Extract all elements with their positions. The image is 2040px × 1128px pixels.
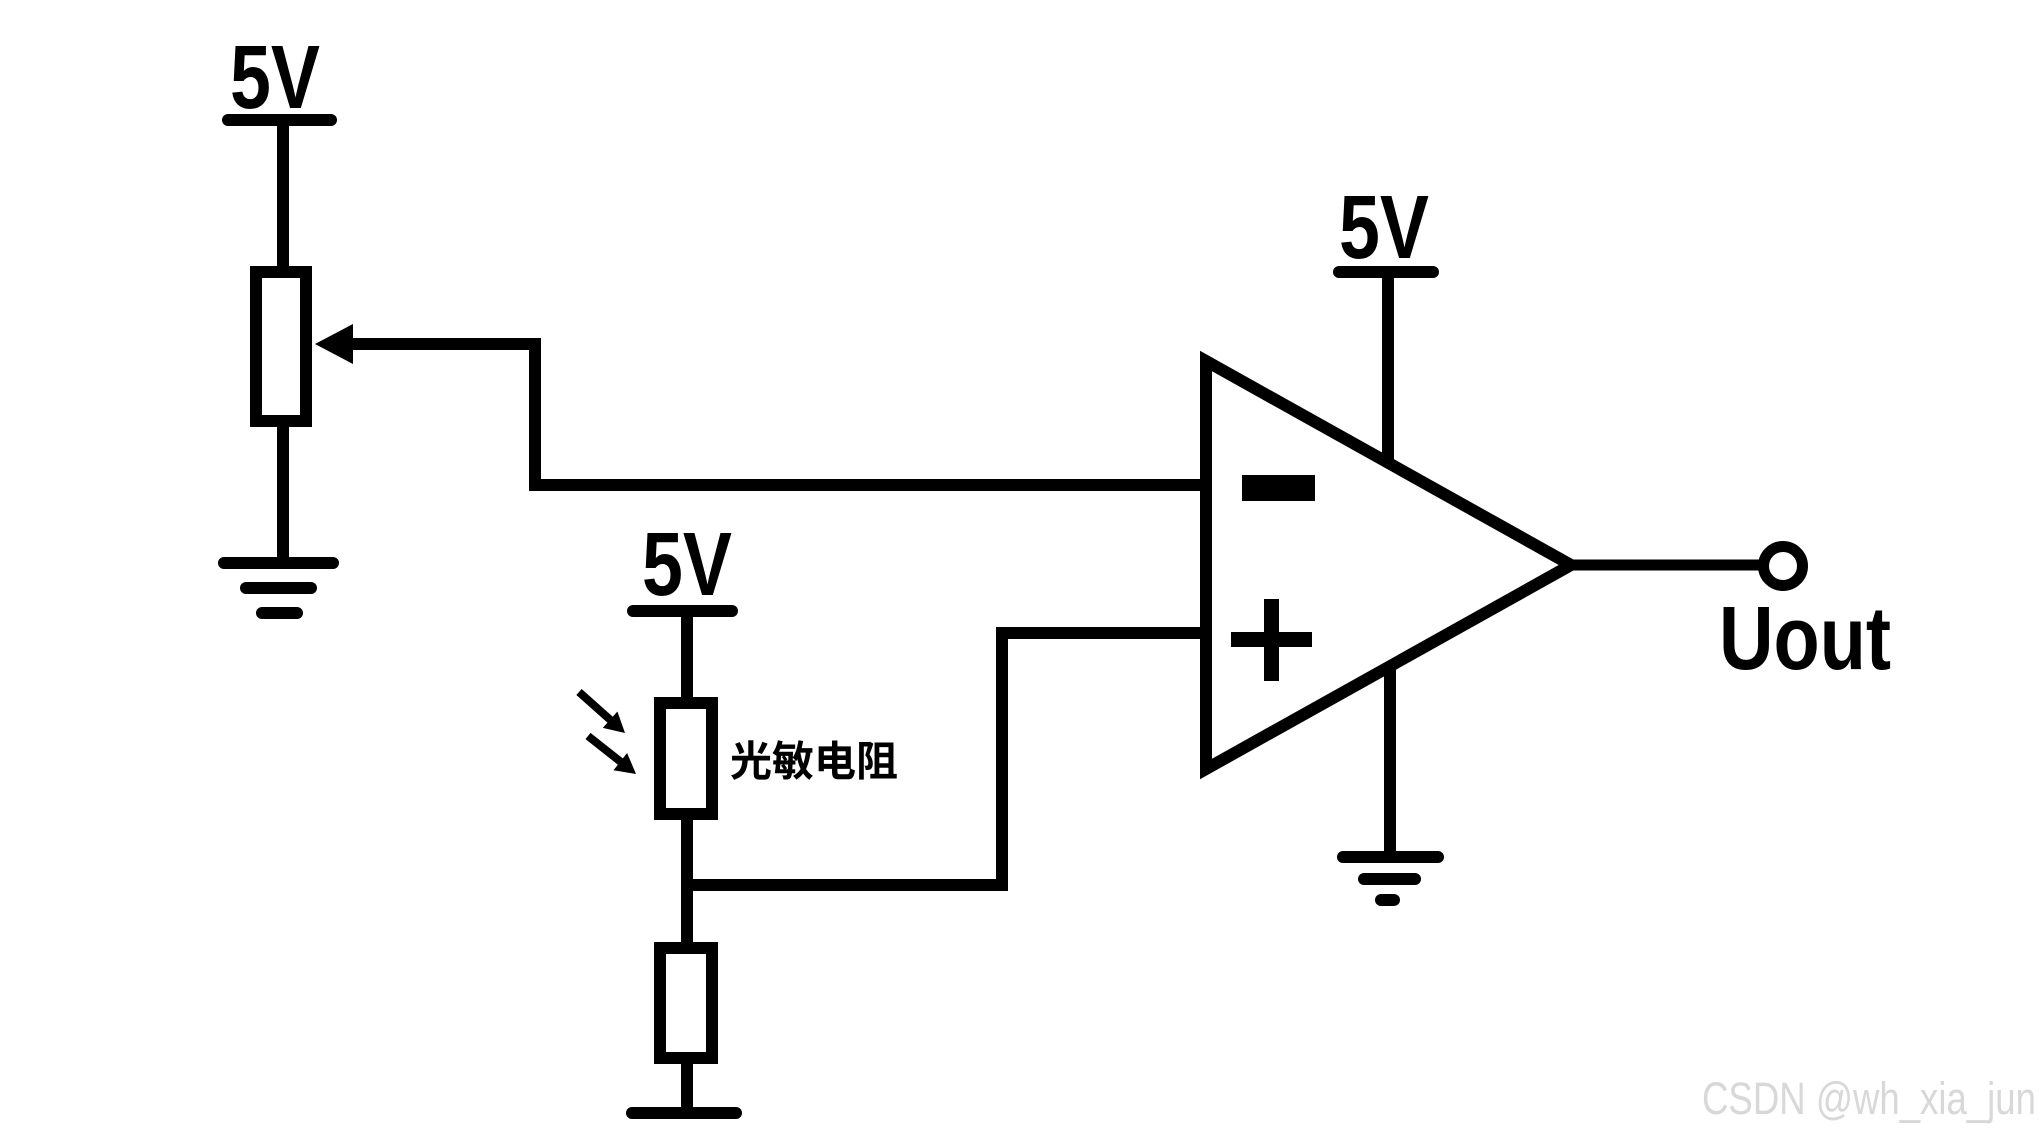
svg-text:CSDN @wh_xia_jun: CSDN @wh_xia_jun: [1702, 1073, 2036, 1124]
svg-text:5V: 5V: [230, 28, 320, 128]
svg-text:Uout: Uout: [1719, 589, 1891, 689]
svg-text:5V: 5V: [1339, 178, 1429, 278]
svg-text:5V: 5V: [642, 515, 732, 615]
